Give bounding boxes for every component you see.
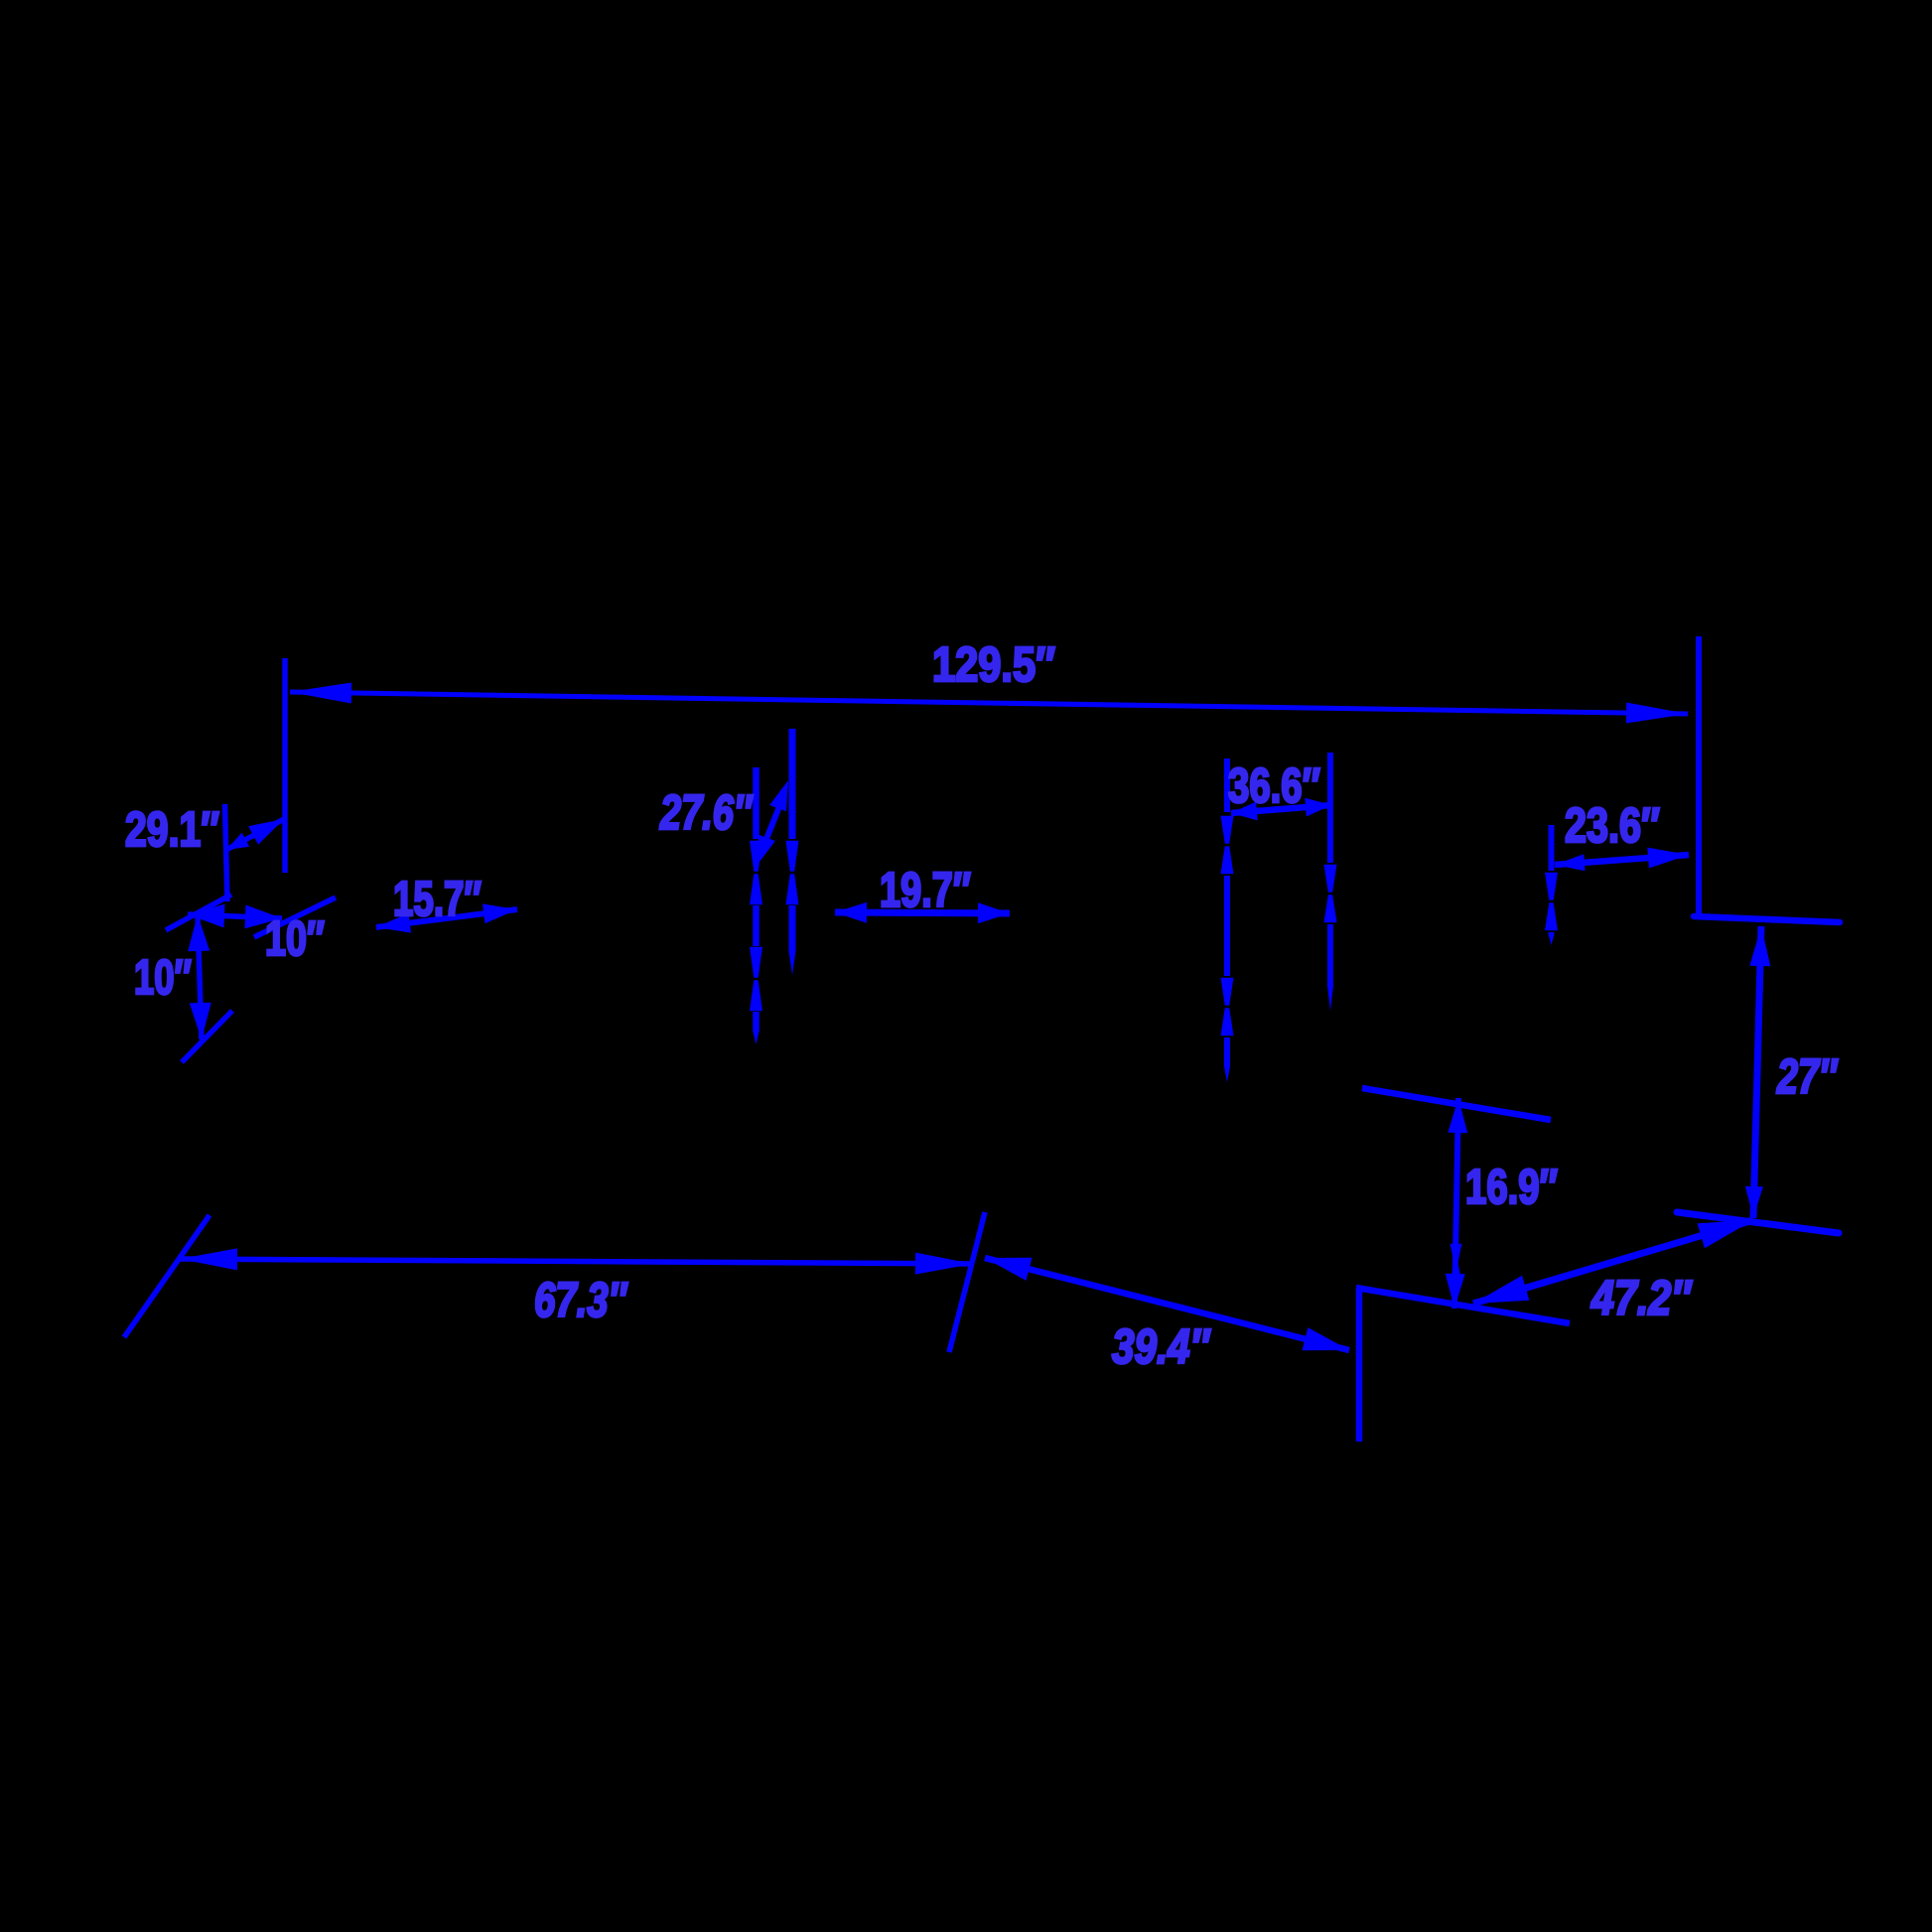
svg-text:27″: 27″ <box>1776 1050 1839 1104</box>
dimension arrow 27 <box>1753 926 1761 1218</box>
svg-text:19.7″: 19.7″ <box>880 864 971 917</box>
27.6 right line taper <box>789 951 796 975</box>
extension line right corner horizontal <box>1694 916 1840 922</box>
67.3 right slant tick <box>949 1212 985 1352</box>
svg-text:15.7″: 15.7″ <box>393 873 482 926</box>
27.6 left line pinch 2 <box>750 947 762 978</box>
dimension arrow 47.2 <box>1473 1220 1753 1304</box>
slanted tick upper-left (10h) <box>166 895 231 930</box>
svg-text:67.3″: 67.3″ <box>534 1274 628 1327</box>
36.6 left line taper <box>1224 1066 1230 1082</box>
dimension arrow 10 vertical <box>198 914 202 1039</box>
svg-text:23.6″: 23.6″ <box>1565 799 1660 853</box>
27.6 left line taper <box>753 1031 759 1044</box>
dimension arrow 15.7 <box>376 909 517 927</box>
svg-text:27.6″: 27.6″ <box>659 786 754 840</box>
L corner vertical <box>1356 1290 1363 1442</box>
svg-text:10″: 10″ <box>134 951 192 1005</box>
27.6 left line upper <box>753 767 759 839</box>
slanted tick right (10h) <box>254 897 336 937</box>
dimension arrow 39.4 <box>985 1258 1349 1350</box>
36.6 left line pinch 1 <box>1221 816 1234 844</box>
dimension arrow 36.6 <box>1231 805 1331 813</box>
36.6 left line pinch 2 <box>1221 978 1234 1006</box>
floor tick at 27 base <box>1677 1212 1839 1233</box>
36.6 right line lower <box>1327 924 1333 986</box>
27.6 left line mid <box>753 905 759 946</box>
svg-text:16.9″: 16.9″ <box>1465 1161 1558 1214</box>
16.9 pinch <box>1450 1244 1462 1262</box>
36.6 right line upper <box>1327 753 1333 863</box>
27.6 right line upper <box>789 729 796 839</box>
slanted tick bottom (10v) <box>182 1011 232 1062</box>
svg-text:29.1″: 29.1″ <box>125 803 219 857</box>
27.6 left line lower <box>753 1012 759 1031</box>
dimension arrow 29.1 <box>226 819 284 850</box>
svg-text:47.2″: 47.2″ <box>1590 1272 1693 1325</box>
16.9 top tick <box>1362 1088 1551 1120</box>
36.6 left line lower <box>1224 1037 1230 1066</box>
svg-text:36.6″: 36.6″ <box>1228 759 1320 813</box>
27.6 diagonal connector <box>760 794 784 854</box>
23.6 tick line pinch <box>1545 873 1558 900</box>
36.6 left line upper <box>1224 759 1230 812</box>
36.6 left line mid <box>1224 876 1230 976</box>
dimension arrow 23.6 <box>1555 855 1689 865</box>
36.6 right line pinch <box>1324 865 1337 893</box>
36.6 right line taper <box>1327 986 1333 1011</box>
dimension arrow 16.9 <box>1454 1098 1458 1309</box>
67.3 left slant tick <box>124 1215 209 1337</box>
svg-text:10″: 10″ <box>265 912 325 966</box>
tick line (29.1) <box>225 804 228 901</box>
dimension arrow 10 horizontal <box>188 914 282 918</box>
extension line right vertical (129.5) <box>1696 636 1702 914</box>
L corner horizontal <box>1356 1288 1570 1323</box>
extension line left (129.5) <box>282 658 288 873</box>
dimension line 129.5 <box>290 692 1688 714</box>
23.6 tick line upper <box>1549 825 1555 871</box>
27.6 right line pinch <box>786 841 799 872</box>
23.6 tick line lower <box>1549 932 1555 934</box>
27.6 right line lower <box>789 905 796 951</box>
svg-text:39.4″: 39.4″ <box>1112 1320 1211 1374</box>
23.6 tick line taper <box>1549 934 1555 945</box>
27.6 left line pinch 1 <box>750 841 762 872</box>
dimension arrow 19.7 <box>835 912 1010 913</box>
dimension arrow 67.3 <box>180 1259 973 1264</box>
svg-text:129.5″: 129.5″ <box>932 638 1055 692</box>
